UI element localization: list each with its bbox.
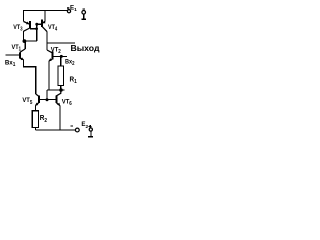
wire VT1 collector riser [24, 41, 26, 49]
svg-text:Вх2: Вх2 [65, 59, 75, 68]
transistor VT3 base lead [24, 28, 30, 31]
node jog fat dot [23, 39, 27, 43]
transistor VT2 collector [47, 50, 53, 53]
transistor VT4 emitter [42, 22, 45, 24]
transistor VT1 bar [19, 52, 21, 58]
wire VT2 emitter drop [48, 61, 50, 90]
transistor VT5 emitter [35, 103, 38, 106]
wire collector-base tie vertical [36, 24, 38, 41]
wire VT3 base drop [23, 31, 25, 41]
wire VT1 emitter path [23, 60, 35, 94]
transistor VT2 emitter [49, 59, 53, 61]
wire E1 minus stub [83, 14, 85, 19]
node R1 top dot [60, 55, 63, 58]
transistor VT2 bar [52, 52, 54, 60]
transistor VT6 emitter [56, 103, 60, 106]
svg-text:VT4: VT4 [48, 24, 57, 33]
svg-text:VT3: VT3 [13, 24, 22, 33]
transistor VT1 emitter arrow [21, 57, 24, 60]
transistor VT6 bar [55, 96, 57, 104]
label E1 plus sign [67, 7, 70, 9]
wire jog diode tie [24, 40, 37, 42]
wire VT4 emitter riser [44, 11, 46, 22]
terminal E1 minus circle [82, 11, 86, 15]
wire top rail [24, 11, 68, 22]
svg-text:R1: R1 [70, 74, 77, 85]
svg-text:VT5: VT5 [22, 97, 32, 106]
terminal E1 circle [67, 10, 70, 13]
transistor VT1 emitter [20, 58, 24, 60]
node tail dot [59, 88, 63, 92]
wire output [47, 42, 75, 44]
transistor VT4 bar [41, 20, 43, 28]
transistor VT3 bar [29, 21, 31, 29]
transistor VT2 emitter arrow [49, 58, 52, 61]
transistor VT3 collector lead [30, 28, 37, 30]
wire base drop to mirror [46, 90, 48, 100]
transistor VT5 bar [38, 96, 40, 104]
wire R1 top stub [60, 56, 62, 66]
wire input1 [5, 54, 19, 56]
wire R1 bottom stub [60, 86, 62, 91]
wire tail link [47, 89, 64, 91]
wire base link to VT4 [37, 23, 42, 25]
label E2 plus sign [89, 126, 92, 128]
node collector tie dot [35, 27, 38, 30]
transistor VT5 emitter arrow [35, 103, 38, 106]
transistor VT5 collector [36, 94, 39, 96]
resistor R1 [58, 66, 64, 86]
wire input2 [53, 55, 67, 57]
node mirror base dot [46, 98, 49, 101]
transistor VT6 emitter arrow [57, 103, 60, 106]
svg-text:E2: E2 [81, 121, 88, 130]
transistor VT1 collector [20, 49, 25, 53]
label E2 minus sign [70, 125, 73, 127]
resistor R2 [32, 111, 38, 128]
label E1 minus sign [83, 8, 86, 10]
wire VT6 collector riser [56, 90, 61, 96]
wire VT5 emitter stub [34, 106, 36, 111]
transistor VT4 emitter arrow [42, 21, 45, 24]
terminal E2 plus bar [88, 136, 93, 138]
svg-text:Выход: Выход [71, 44, 101, 53]
node tie dot [35, 23, 38, 26]
wire VT5-VT6 base link [39, 98, 57, 100]
transistor VT3 emitter [24, 22, 30, 25]
wire R2 bottom stub [34, 128, 36, 130]
terminal E1 minus bar [81, 18, 86, 20]
transistor VT3 emitter arrow [26, 22, 29, 25]
terminal E2 minus circle [75, 128, 79, 132]
wire VT6 emitter drop [59, 106, 61, 130]
wire VT4 collector drop [46, 32, 48, 50]
wire bottom rail [35, 129, 75, 131]
wire E2 plus stub [90, 131, 92, 136]
svg-text:VT1: VT1 [12, 44, 22, 53]
svg-text:VT6: VT6 [62, 98, 72, 107]
svg-text:Вх1: Вх1 [5, 59, 16, 68]
svg-text:R2: R2 [40, 113, 47, 124]
terminal E2 plus circle [89, 128, 92, 131]
transistor VT4 collector [42, 26, 47, 31]
